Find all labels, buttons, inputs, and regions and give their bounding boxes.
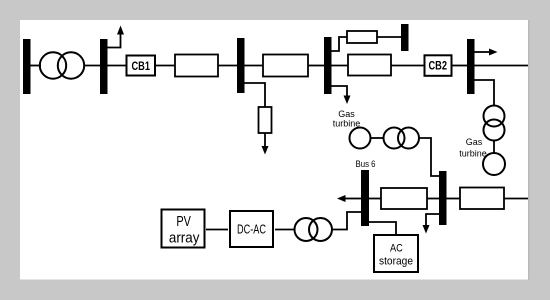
svg-text:Gas: Gas — [466, 137, 483, 147]
generator G2 (right gas turbine) — [483, 153, 505, 175]
wire transformer T4 to bus 6 — [332, 212, 362, 230]
load arrow up at bus 2 — [107, 26, 124, 48]
bus 7 — [439, 171, 447, 225]
load arrow below bus 7 — [423, 214, 440, 234]
line L4 — [347, 31, 377, 43]
reactor X1 — [259, 107, 272, 133]
label PV array — [169, 213, 200, 247]
wire CB1 to line L1 — [155, 65, 175, 67]
svg-text:Gas: Gas — [338, 109, 355, 119]
generator G1 (middle gas turbine) — [350, 128, 371, 149]
wire DC-AC converter to transformer T4 — [275, 229, 295, 231]
bus 3 — [237, 38, 245, 93]
wire bus 5 to right edge and down to bottom feeder — [475, 65, 529, 67]
label Bus 6 — [356, 159, 376, 169]
wire line L1 to bus 3 — [218, 65, 237, 67]
wire line L4 to stub bus — [377, 36, 401, 38]
wire line L3 to CB2 — [391, 65, 425, 67]
transformer T4 — [295, 218, 333, 241]
tie branch above bus 4 — [331, 37, 347, 51]
wire main top line bus1 to transformer — [30, 65, 41, 67]
label CB1 — [132, 59, 151, 73]
bus 5 — [467, 39, 475, 94]
label AC storage — [379, 243, 413, 268]
transformer T1 — [40, 52, 84, 78]
label Gas turbine (middle) — [333, 109, 361, 129]
transformer T2 — [384, 128, 420, 149]
line L3 — [348, 55, 391, 76]
branch below bus 5 to transformer T3 — [475, 80, 495, 106]
wire transformer T1 to bus 2 — [84, 65, 101, 67]
label CB2 — [429, 59, 448, 73]
converter DC-AC box — [230, 211, 273, 247]
PV array box — [162, 210, 205, 248]
bottom feeder left arrow — [337, 195, 361, 202]
svg-text:AC: AC — [390, 243, 403, 255]
wire line L6 to right edge — [504, 198, 528, 200]
bus 1 — [23, 39, 31, 94]
svg-text:array: array — [169, 230, 200, 247]
bus 6 — [361, 170, 369, 226]
line L5 — [381, 188, 427, 209]
feeder branch below bus 3 with series reactor and load arrow — [244, 83, 265, 107]
wire CB2 to bus 5 — [451, 65, 467, 67]
stub bus — [401, 24, 409, 51]
wire PV array to DC-AC converter — [206, 229, 228, 231]
load arrow right of bus 5 — [475, 49, 498, 56]
wire bus 7 to line L6 — [446, 198, 460, 200]
wire transformer T3 to generator G2 — [493, 141, 495, 154]
bus 2 — [100, 39, 108, 94]
gas turbine arrow below bus 4 — [331, 86, 351, 104]
line L1 — [175, 55, 218, 77]
wire generator G1 to transformer T2 — [371, 137, 385, 139]
transformer T3 — [484, 106, 505, 141]
wire bus 6 to AC storage — [369, 222, 396, 235]
wire line L2 to bus 4 — [308, 65, 324, 67]
svg-text:CB2: CB2 — [429, 59, 448, 73]
wire bus 6 to line L5 — [369, 198, 381, 200]
svg-text:turbine: turbine — [333, 119, 361, 129]
wire bus 3 to line L2 — [244, 65, 263, 67]
breaker CB1 — [127, 56, 156, 76]
svg-text:PV: PV — [176, 213, 191, 230]
label Gas turbine (right) — [459, 137, 487, 159]
svg-text:storage: storage — [379, 256, 413, 268]
label DC-AC — [237, 223, 266, 237]
line L2 — [263, 55, 308, 77]
slide right edge shading — [528, 20, 530, 280]
svg-text:Bus 6: Bus 6 — [356, 159, 376, 169]
svg-text:turbine: turbine — [459, 149, 487, 159]
wire bus 4 to line L3 — [331, 65, 348, 67]
bus 4 — [324, 37, 332, 94]
wire reactor X1 to load arrow — [262, 133, 269, 155]
svg-text:CB1: CB1 — [132, 59, 151, 73]
wire line L5 to bus 7 — [427, 198, 439, 200]
line L6 — [460, 188, 504, 210]
wire transformer T2 to bus 7 — [419, 138, 439, 176]
breaker CB2 — [425, 55, 452, 76]
svg-text:DC-AC: DC-AC — [237, 223, 266, 237]
AC storage box — [374, 235, 418, 272]
wire bus 2 to CB1 — [107, 65, 127, 67]
